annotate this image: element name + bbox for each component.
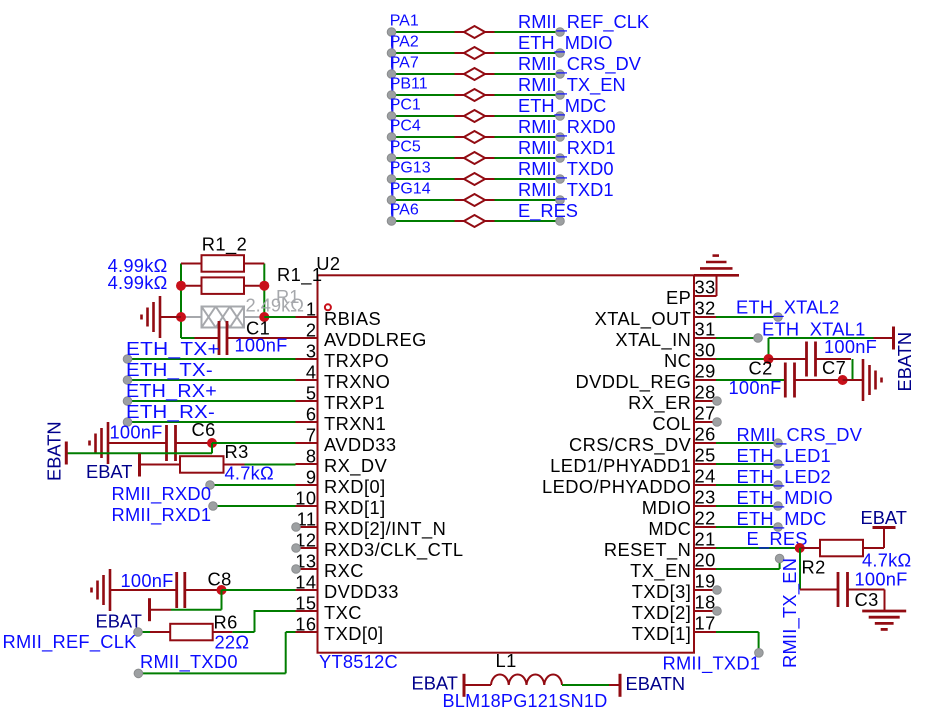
wire RMII_CRS_DV: [716, 442, 778, 444]
pin 8 RX_DV: [296, 463, 318, 465]
wire XTAL_OUT: [716, 316, 778, 318]
svg-text:ETH_LED2: ETH_LED2: [737, 466, 831, 488]
svg-text:1: 1: [306, 299, 317, 320]
wire PG14 right segment: [495, 199, 561, 201]
resistor R1 not fitted (gray crossed): [181, 316, 202, 318]
svg-text:R2: R2: [802, 557, 826, 578]
wire PB11 right segment: [495, 94, 561, 96]
pin 7 AVDD33: [296, 442, 318, 444]
svg-text:ETH_MDC: ETH_MDC: [518, 95, 606, 117]
pin 24 LEDO/PHYADDO: [694, 484, 716, 486]
svg-text:ETH_MDIO: ETH_MDIO: [518, 32, 612, 54]
net tie diamond row PA2: [455, 52, 465, 54]
node RMII_RXD0: [556, 133, 565, 142]
ground at C2/C7: [843, 379, 863, 381]
net tie diamond row PC1: [455, 115, 465, 117]
wire PC1 left segment: [392, 115, 455, 117]
wire PC5 left segment: [392, 157, 455, 159]
node ETH_XTAL2: [774, 313, 783, 322]
svg-text:26: 26: [695, 424, 716, 445]
pin 6 TRXN1: [296, 421, 318, 423]
svg-text:ETH_MDIO: ETH_MDIO: [737, 487, 833, 509]
svg-text:RXD3/CLK_CTL: RXD3/CLK_CTL: [324, 539, 464, 561]
node PC5: [387, 154, 396, 163]
wire RBIAS to R1 network: [264, 316, 295, 318]
svg-text:C6: C6: [192, 419, 216, 440]
svg-text:L1: L1: [496, 650, 517, 671]
svg-text:ETH_RX+: ETH_RX+: [126, 380, 217, 402]
svg-text:9: 9: [306, 467, 317, 488]
pin 31 XTAL_IN: [694, 337, 716, 339]
pin 17 TXD[1]: [694, 631, 716, 633]
node ETH_TX-: [123, 376, 132, 385]
net tie diamond row PC5: [455, 157, 465, 159]
wire EBATN horizontal: [66, 452, 212, 454]
svg-text:RXD[0]: RXD[0]: [324, 476, 386, 497]
wire TXD[0] vertical: [285, 632, 287, 673]
svg-text:R1_1: R1_1: [277, 264, 323, 286]
wire ETH_MDIO: [716, 505, 778, 507]
svg-text:ETH_TX+: ETH_TX+: [126, 338, 220, 360]
wire R6 to TXC vertical: [254, 611, 256, 632]
svg-text:RMII_REF_CLK: RMII_REF_CLK: [3, 631, 137, 653]
svg-text:16: 16: [295, 614, 316, 635]
node RMII_CRS_DV: [774, 439, 783, 448]
wire right vertical of R1 network: [263, 264, 265, 318]
net tie diamond row PB11: [455, 94, 465, 96]
svg-text:EBATN: EBATN: [626, 673, 686, 694]
junction E_RES node: [795, 543, 805, 553]
svg-text:2: 2: [306, 320, 317, 341]
power port EBAT at C8: [150, 609, 171, 611]
node ETH_RX+: [123, 397, 132, 406]
node RMII_RXD1: [209, 502, 218, 511]
svg-text:RMII_CRS_DV: RMII_CRS_DV: [737, 424, 863, 446]
junction at RBIAS node right: [259, 312, 269, 322]
op IC U2 YT8512C body: [318, 275, 695, 652]
svg-text:RX_ER: RX_ER: [628, 392, 691, 414]
svg-text:32: 32: [695, 298, 716, 319]
node ETH_LED2: [774, 481, 783, 490]
svg-text:100nF: 100nF: [729, 377, 782, 398]
ground at C3: [884, 590, 886, 612]
svg-text:XTAL_IN: XTAL_IN: [615, 329, 691, 351]
resistor R6: [150, 631, 170, 633]
node PA6: [387, 217, 396, 226]
pin 30 NC: [694, 358, 716, 360]
svg-text:AVDDLREG: AVDDLREG: [324, 329, 427, 350]
node ETH_MDC: [774, 523, 783, 532]
svg-text:100nF: 100nF: [235, 335, 288, 356]
node RMII_TXD0: [556, 175, 565, 184]
wire ETH_MDC: [716, 526, 778, 528]
node ETH_RX-: [123, 418, 132, 427]
power port EBATN at L1: [609, 684, 620, 686]
no-connect node pin 28: [713, 397, 722, 406]
svg-text:RMII_RXD1: RMII_RXD1: [112, 504, 212, 526]
wire TXD[0] from pin 16: [286, 631, 296, 633]
svg-text:4: 4: [306, 362, 317, 383]
svg-text:33: 33: [695, 277, 716, 298]
svg-text:RESET_N: RESET_N: [604, 539, 691, 561]
svg-text:TRXPO: TRXPO: [324, 350, 389, 371]
svg-text:2.49kΩ: 2.49kΩ: [246, 295, 304, 316]
pin 29 DVDDL_REG: [694, 379, 716, 381]
wire RMII_REF_CLK stub: [138, 631, 150, 633]
pin 3 TRXPO: [296, 358, 318, 360]
svg-text:RMII_TXD1: RMII_TXD1: [518, 179, 614, 201]
svg-text:RMII_RXD1: RMII_RXD1: [518, 137, 616, 159]
wire DVDD33 to pin 14: [222, 589, 296, 591]
wire E_RES to C3 vertical: [799, 548, 801, 590]
connector column vertical line: [391, 31, 393, 222]
wire TX_EN: [716, 568, 780, 570]
pin 14 DVDD33: [296, 589, 318, 591]
pin 27 COL: [694, 421, 716, 423]
node PG14: [387, 196, 396, 205]
node ETH_MDC: [556, 112, 565, 121]
wire AVDD33 to pin 7: [212, 442, 296, 444]
svg-text:100nF: 100nF: [110, 422, 163, 443]
svg-text:ETH_TX-: ETH_TX-: [126, 359, 213, 381]
svg-text:8: 8: [306, 446, 317, 467]
svg-text:R1_2: R1_2: [202, 234, 248, 256]
wire PC4 right segment: [495, 136, 561, 138]
ground at R1 network: [160, 316, 181, 318]
node RMII_TX_EN: [775, 554, 784, 563]
node PC4: [387, 133, 396, 142]
pin 1 RBIAS: [296, 316, 318, 318]
wire ETH_TX+: [128, 358, 296, 360]
svg-text:PB11: PB11: [390, 76, 428, 93]
node PA1: [387, 28, 396, 37]
wire RMII_RXD1: [213, 505, 296, 507]
wire C7 to ground vertical: [852, 359, 854, 380]
pin 18 TXD[2]: [694, 610, 716, 612]
node ETH_MDIO: [774, 502, 783, 511]
inductor L1: [464, 684, 491, 686]
wire PA1 right segment: [495, 31, 561, 33]
node PC1: [387, 112, 396, 121]
svg-text:TX_EN: TX_EN: [630, 560, 691, 582]
svg-text:EBAT: EBAT: [86, 461, 132, 482]
power port EBAT at R3: [138, 454, 141, 477]
svg-text:7: 7: [306, 425, 317, 446]
svg-text:22: 22: [695, 508, 716, 529]
wire C7 ground link: [843, 379, 853, 381]
net tie diamond row PA6: [455, 220, 465, 222]
pin 15 TXC: [296, 610, 318, 612]
wire EBATN to NC vertical: [768, 338, 770, 359]
svg-text:3: 3: [306, 341, 317, 362]
wire PA7 right segment: [495, 73, 561, 75]
pin 13 RXC: [296, 568, 318, 570]
capacitor C7: [769, 358, 807, 360]
svg-text:RMII_TXD0: RMII_TXD0: [140, 651, 238, 673]
junction C2 ground node: [838, 375, 848, 385]
svg-text:4.7kΩ: 4.7kΩ: [862, 550, 911, 571]
pin 16 TXD[0]: [296, 631, 318, 633]
pin 5 TRXP1: [296, 400, 318, 402]
svg-text:PC5: PC5: [390, 139, 421, 156]
wire TXD[0] horizontal: [138, 672, 285, 674]
node PA7: [387, 70, 396, 79]
pin 33 EP: [694, 295, 717, 297]
svg-text:100nF: 100nF: [824, 336, 877, 357]
svg-text:TXC: TXC: [324, 602, 362, 623]
svg-text:PA6: PA6: [390, 202, 419, 219]
svg-text:17: 17: [695, 613, 716, 634]
pin 12 RXD3/CLK_CTL: [296, 547, 318, 549]
node PB11: [387, 91, 396, 100]
power port EBATN left: [65, 442, 68, 465]
wire PA1 left segment: [392, 31, 455, 33]
pin 11 RXD[2]/INT_N: [296, 526, 318, 528]
svg-text:YT8512C: YT8512C: [319, 651, 398, 672]
svg-text:25: 25: [695, 445, 716, 466]
resistor R3: [140, 464, 181, 466]
svg-text:4.99kΩ: 4.99kΩ: [108, 272, 168, 293]
node RMII_RXD1: [556, 154, 565, 163]
wire ETH_TX-: [128, 379, 296, 381]
svg-text:MDC: MDC: [648, 518, 691, 539]
wire TXD[1]: [716, 631, 759, 633]
svg-text:PA7: PA7: [390, 55, 419, 72]
power port EBAT at R2: [883, 528, 885, 549]
svg-text:LEDO/PHYADDO: LEDO/PHYADDO: [542, 476, 691, 497]
wire RMII_RXD0: [210, 484, 296, 486]
pin 25 LED1/PHYADD1: [694, 463, 716, 465]
svg-text:100nF: 100nF: [121, 570, 174, 591]
net tie diamond row PC4: [455, 136, 465, 138]
wire R6 to TXC horizontal: [232, 631, 254, 633]
pin 4 TRXNO: [296, 379, 318, 381]
wire ETH_RX+: [128, 400, 296, 402]
node ETH_TX+: [123, 355, 132, 364]
wire EBATN feed horizontal: [769, 337, 874, 339]
node RMII_REF_CLK: [134, 628, 143, 637]
svg-text:31: 31: [695, 319, 716, 340]
node RMII_TX_EN: [556, 91, 565, 100]
svg-text:RXD[1]: RXD[1]: [324, 497, 386, 518]
capacitor C8: [110, 589, 177, 591]
junction AVDD33 node: [207, 438, 217, 448]
svg-text:21: 21: [695, 529, 716, 550]
svg-text:23: 23: [695, 487, 716, 508]
wire ETH_LED1: [716, 463, 778, 465]
capacitor C3: [800, 589, 838, 591]
wire PG13 left segment: [392, 178, 455, 180]
svg-text:PC4: PC4: [390, 118, 421, 135]
svg-text:XTAL_OUT: XTAL_OUT: [595, 308, 692, 330]
capacitor C2: [784, 363, 787, 398]
wire PC5 right segment: [495, 157, 561, 159]
node RMII_RXD0: [206, 481, 215, 490]
power port EBAT at L1: [463, 674, 466, 697]
wire PA6 right segment: [495, 220, 561, 222]
svg-text:ETH_XTAL2: ETH_XTAL2: [736, 297, 840, 319]
resistor R2: [800, 547, 820, 549]
node RMII_TXD1: [755, 649, 764, 658]
wire TXC: [254, 610, 296, 612]
node E_RES: [556, 217, 565, 226]
pin 21 RESET_N: [694, 547, 716, 549]
ground power GND top (bars): [694, 274, 739, 277]
svg-text:TRXP1: TRXP1: [324, 392, 385, 413]
wire XTAL_IN: [716, 337, 758, 339]
node ETH_MDIO: [556, 49, 565, 58]
pin 1 marker circle: [325, 304, 331, 310]
pin 20 TX_EN: [694, 568, 716, 570]
node RMII_TXD0: [134, 669, 143, 678]
svg-text:29: 29: [695, 361, 716, 382]
net tie diamond row PA1: [455, 31, 465, 33]
node PA2: [387, 49, 396, 58]
node PG13: [387, 175, 396, 184]
no-connect node pin 19: [713, 586, 722, 595]
node ETH_XTAL1: [754, 334, 763, 343]
svg-text:EP: EP: [666, 287, 691, 308]
pin 26 CRS/CRS_DV: [694, 442, 716, 444]
wire TX_EN vertical: [779, 559, 781, 570]
no-connect node pin 11: [292, 523, 301, 532]
svg-text:10: 10: [295, 488, 316, 509]
ground at C8: [109, 569, 112, 611]
capacitor C1: [195, 337, 220, 339]
wire ETH_LED2: [716, 484, 778, 486]
pin 10 RXD[1]: [296, 505, 318, 507]
svg-text:AVDD33: AVDD33: [324, 434, 396, 455]
svg-text:30: 30: [695, 340, 716, 361]
wire ETH_RX-: [128, 421, 296, 423]
wire RESET_N: [716, 547, 800, 549]
pin 2 AVDDLREG: [296, 337, 318, 339]
svg-text:EBAT: EBAT: [861, 507, 907, 528]
wire AVDDLREG left: [181, 337, 195, 339]
svg-text:RBIAS: RBIAS: [324, 308, 381, 329]
svg-text:RMII_REF_CLK: RMII_REF_CLK: [518, 11, 649, 33]
wire EBAT vertical at C8: [221, 590, 223, 610]
svg-text:PG14: PG14: [390, 181, 431, 198]
wire DVDDL_REG: [716, 379, 785, 381]
svg-text:TXD[0]: TXD[0]: [324, 623, 384, 644]
svg-text:TRXNO: TRXNO: [324, 371, 390, 392]
wire EBAT horizontal at C8: [171, 609, 222, 611]
power port EBATN right: [874, 337, 894, 339]
svg-text:RMII_TX_EN: RMII_TX_EN: [779, 558, 801, 668]
svg-text:NC: NC: [664, 350, 691, 371]
svg-text:MDIO: MDIO: [642, 497, 692, 518]
svg-text:15: 15: [295, 593, 316, 614]
net tie diamond row PG13: [455, 178, 465, 180]
svg-text:20: 20: [695, 550, 716, 571]
wire PG13 right segment: [495, 178, 561, 180]
no-connect node pin 13: [292, 565, 301, 574]
svg-text:BLM18PG121SN1D: BLM18PG121SN1D: [443, 690, 608, 711]
wire PA7 left segment: [392, 73, 455, 75]
svg-text:22Ω: 22Ω: [215, 632, 250, 653]
svg-text:EBATN: EBATN: [894, 332, 915, 392]
svg-text:PC1: PC1: [390, 97, 421, 114]
wire TXD[1] vertical: [758, 632, 760, 653]
svg-text:RMII_TXD1: RMII_TXD1: [663, 653, 761, 675]
svg-text:RMII_TX_EN: RMII_TX_EN: [518, 74, 626, 96]
net tie diamond row PA7: [455, 73, 465, 75]
svg-text:TXD[2]: TXD[2]: [632, 602, 692, 623]
resistor R1_1: [181, 285, 202, 287]
svg-text:DVDDL_REG: DVDDL_REG: [575, 371, 691, 393]
junction NC node: [764, 354, 774, 364]
svg-text:PA1: PA1: [390, 13, 419, 30]
pin 23 MDIO: [694, 505, 716, 507]
svg-text:100nF: 100nF: [855, 569, 908, 590]
svg-text:C3: C3: [855, 589, 879, 610]
pin 9 RXD[0]: [296, 484, 318, 486]
wire left vertical bus of R1 network: [180, 264, 182, 339]
svg-text:COL: COL: [652, 413, 691, 434]
svg-text:E_RES: E_RES: [518, 200, 578, 222]
node RMII_REF_CLK: [556, 28, 565, 37]
svg-text:24: 24: [695, 466, 716, 487]
svg-text:TXD[3]: TXD[3]: [632, 581, 692, 602]
svg-text:ETH_LED1: ETH_LED1: [737, 445, 831, 467]
wire EP to ground vertical: [716, 275, 718, 296]
pin 28 RX_ER: [694, 400, 716, 402]
svg-text:RX_DV: RX_DV: [324, 455, 388, 477]
svg-text:14: 14: [295, 572, 316, 593]
net tie diamond row PG14: [455, 199, 465, 201]
wire L1 to EBATN: [562, 684, 609, 686]
svg-text:DVDD33: DVDD33: [324, 581, 399, 602]
svg-text:C7: C7: [822, 357, 846, 378]
svg-text:6: 6: [306, 404, 317, 425]
svg-text:RXC: RXC: [324, 560, 364, 581]
wire EBATN vertical drop: [211, 443, 213, 453]
node RMII_TXD1: [556, 196, 565, 205]
svg-text:RMII_RXD0: RMII_RXD0: [112, 483, 212, 505]
capacitor C6: [108, 442, 167, 444]
svg-text:RMII_TXD0: RMII_TXD0: [518, 158, 614, 180]
svg-text:PA2: PA2: [390, 34, 419, 51]
svg-text:RMII_RXD0: RMII_RXD0: [518, 116, 616, 138]
svg-text:R3: R3: [225, 441, 249, 462]
junction at R1_1 left: [176, 281, 186, 291]
wire PB11 left segment: [392, 94, 455, 96]
pin 22 MDC: [694, 526, 716, 528]
wire PG14 left segment: [392, 199, 455, 201]
svg-text:TRXN1: TRXN1: [324, 413, 386, 434]
pin 32 XTAL_OUT: [694, 316, 716, 318]
pin 19 TXD[3]: [694, 589, 716, 591]
junction at RBIAS node left: [176, 312, 186, 322]
junction DVDD33 node: [217, 585, 227, 595]
svg-text:CRS/CRS_DV: CRS/CRS_DV: [569, 434, 692, 456]
no-connect node pin 12: [292, 544, 301, 553]
wire PA6 left segment: [392, 220, 455, 222]
wire NC pin 30: [716, 358, 769, 360]
svg-text:LED1/PHYADD1: LED1/PHYADD1: [550, 455, 691, 476]
no-connect node pin 18: [713, 607, 722, 616]
resistor R1_2: [181, 263, 202, 265]
node ETH_LED1: [774, 460, 783, 469]
wire PA2 right segment: [495, 52, 561, 54]
svg-text:TXD[1]: TXD[1]: [632, 623, 692, 644]
wire PA2 left segment: [392, 52, 455, 54]
no-connect node pin 27: [713, 418, 722, 427]
ground at C6: [107, 422, 110, 464]
wire R3 to pin 8: [245, 464, 296, 466]
svg-text:5: 5: [306, 383, 317, 404]
